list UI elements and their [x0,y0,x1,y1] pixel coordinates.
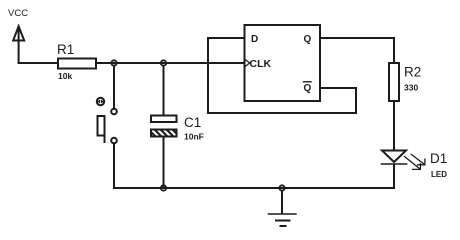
label R2 [404,65,421,80]
svg-text:D1: D1 [430,151,447,166]
svg-text:C1: C1 [184,115,201,130]
node D junction [279,185,284,190]
svg-text:330: 330 [404,83,418,93]
resistor R2 [389,63,399,101]
node C junction [161,185,166,190]
pin Qbar label [304,82,312,94]
svg-text:R1: R1 [57,42,74,57]
value 10nF [184,132,204,142]
capacitor C1 [147,116,181,139]
wire R2 to LED [393,101,395,151]
wire switch to bottom rail [113,143,115,188]
switch S1 top contact [111,109,117,115]
svg-text:D: D [251,34,258,45]
wire feedback right vertical [355,88,357,113]
svg-text:Q: Q [304,83,312,94]
wire node A to switch [113,66,115,109]
value 330 [404,83,418,93]
node B junction [161,60,166,65]
VCC power symbol (arrow) [13,26,24,63]
svg-text:LED: LED [431,170,447,179]
svg-text:10nF: 10nF [184,132,204,142]
pin Q label [304,34,312,45]
switch S1 bottom contact [111,138,117,144]
net VCC label [8,8,28,19]
wire Q to R2 [393,38,395,63]
value LED [431,170,447,179]
wire feedback left vertical [207,38,209,113]
svg-text:CLK: CLK [250,58,272,70]
svg-text:Q: Q [304,34,312,45]
value 10k [58,71,72,81]
pin CLK label and clock wedge [245,58,272,70]
ground [269,214,297,226]
resistor R1 [58,59,96,69]
svg-text:VCC: VCC [8,8,28,19]
label D1 [430,151,447,166]
label C1 [184,115,201,130]
LED D1 emission arrows [405,155,425,170]
wire bottom rail [114,187,394,189]
op-amp U1 flip-flop body [245,25,321,101]
wire feedback bottom [208,112,356,114]
LED D1 triangle [382,151,406,163]
node A junction [111,60,116,65]
wire VCC to R1 [19,62,58,64]
wire Qbar output [320,87,356,89]
svg-text:10k: 10k [58,71,72,81]
wire R1 to node A [96,62,245,64]
LED D1 cathode bar [382,163,407,165]
switch S1 actuate marker [97,98,104,105]
wire D input from feedback [208,37,245,39]
label R1 [57,42,74,57]
pin D label [251,34,258,45]
wire Q output [320,37,394,39]
wire ground tap [281,191,283,214]
wire node B to C1 [163,66,165,116]
svg-text:R2: R2 [404,65,421,80]
switch S1 actuator [98,116,105,142]
wire C1 to bottom rail [163,137,165,189]
wire LED to bottom rail [393,165,395,188]
